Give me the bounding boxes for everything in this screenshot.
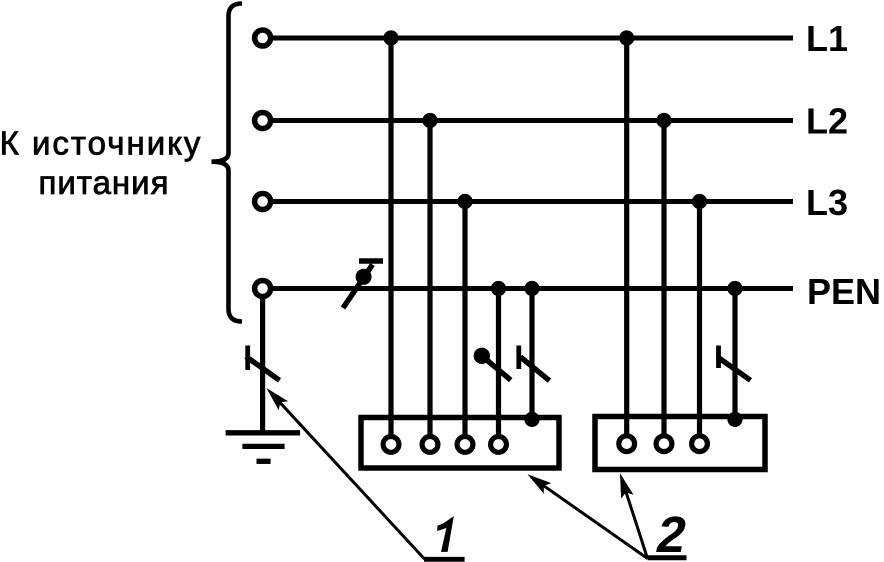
svg-text:питания: питания	[39, 164, 170, 201]
svg-text:L2: L2	[806, 101, 848, 142]
svg-text:К источнику: К источнику	[0, 125, 202, 162]
svg-text:L3: L3	[806, 182, 848, 223]
svg-text:PEN: PEN	[807, 271, 881, 312]
svg-text:L1: L1	[806, 18, 848, 59]
